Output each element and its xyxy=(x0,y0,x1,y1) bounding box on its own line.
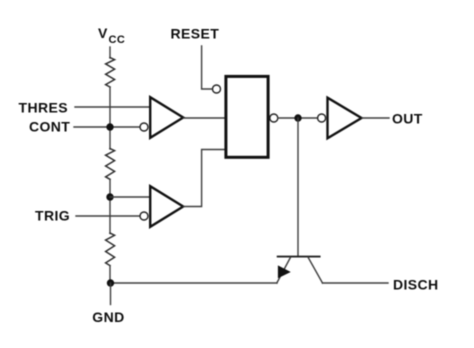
VCC label xyxy=(98,25,125,46)
op-amp U1 threshold comparator xyxy=(150,97,183,138)
wire U1 output to latch xyxy=(184,117,226,119)
wire VCC lead xyxy=(109,47,111,58)
buffer U3 output inverter xyxy=(328,98,362,139)
svg-text:RESET: RESET xyxy=(171,25,220,41)
op-amp U2 trigger comparator xyxy=(150,186,183,227)
input bubble comparator U1 xyxy=(140,123,148,131)
svg-text:CONT: CONT xyxy=(29,119,70,135)
node output junction xyxy=(294,114,301,121)
wire base lead to transistor xyxy=(297,118,299,256)
svg-text:OUT: OUT xyxy=(392,111,423,127)
input bubble comparator U2 xyxy=(140,212,148,220)
wire TRIG xyxy=(76,215,140,217)
resistor R1 xyxy=(106,58,115,88)
node divider tap junction xyxy=(106,193,113,200)
svg-text:TRIG: TRIG xyxy=(35,208,70,224)
wire U2 output to latch xyxy=(184,150,226,207)
wire tap to U2 plus input xyxy=(110,196,150,198)
reset input bubble xyxy=(213,85,221,93)
wire THRES xyxy=(75,106,150,108)
transistor Q1 collector xyxy=(308,258,322,284)
wire OUT xyxy=(362,117,389,119)
wire DISCH xyxy=(323,282,389,284)
wire emitter to GND rail xyxy=(111,282,278,284)
wire divider R1 to R2 xyxy=(109,87,111,149)
svg-text:GND: GND xyxy=(92,309,124,325)
wire GND lead xyxy=(110,283,112,305)
wire CONT xyxy=(74,126,140,128)
wire divider R3 to GND node xyxy=(109,266,111,283)
input bubble buffer U3 xyxy=(318,114,326,122)
transistor Q1 base bar xyxy=(278,256,320,258)
wire divider R2 to R3 xyxy=(109,179,111,233)
svg-text:DISCH: DISCH xyxy=(393,276,439,292)
svg-text:THRES: THRES xyxy=(19,99,68,115)
node CONT junction xyxy=(106,123,113,130)
transistor Q1 emitter arrow xyxy=(278,266,289,277)
output bubble flip-flop xyxy=(270,114,278,122)
transistor Q1 emitter xyxy=(277,258,291,284)
svg-text:V: V xyxy=(98,25,108,41)
node GND junction xyxy=(107,279,114,286)
wire RESET xyxy=(202,46,213,89)
svg-text:CC: CC xyxy=(109,34,126,46)
resistor R2 xyxy=(106,149,115,180)
resistor R3 xyxy=(106,233,115,266)
wire flip-flop to buffer xyxy=(278,117,318,119)
flip-flop latch block U4 xyxy=(226,76,268,157)
